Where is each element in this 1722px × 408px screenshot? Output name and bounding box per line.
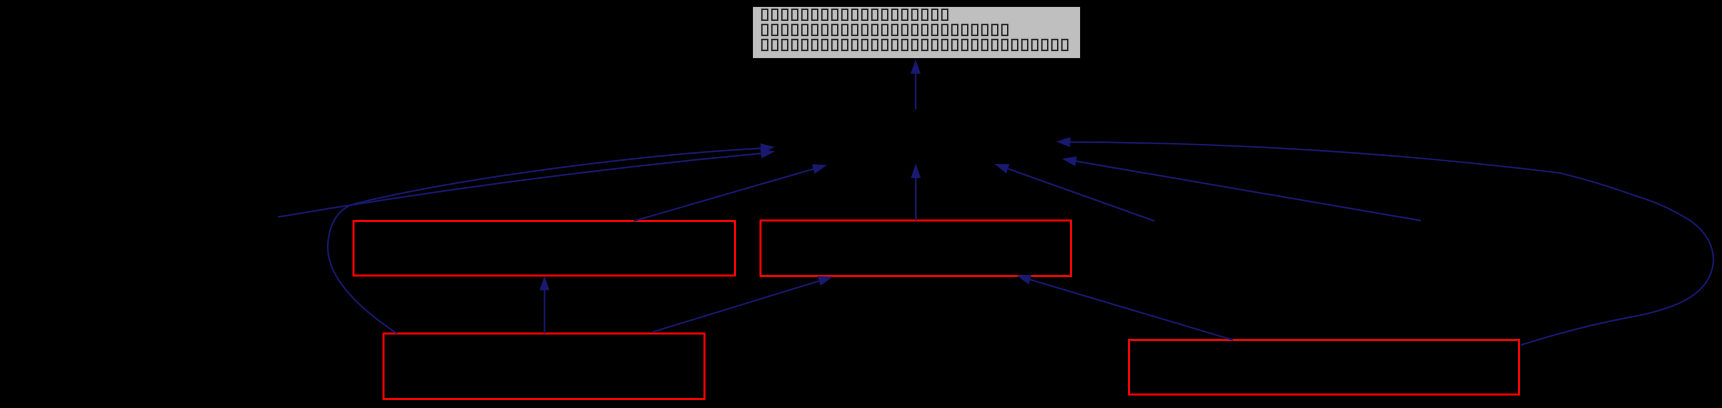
node N6: red truncated node (bottom left) (384, 334, 705, 400)
edge E9: bottom-left red node -> red centre node (653, 276, 833, 332)
node N0 label line 1 (19 missing-glyph boxes) (762, 9, 948, 20)
node N7: red truncated node (bottom right) (1129, 340, 1519, 395)
node N2: red truncated node (row 2 left) (354, 221, 736, 276)
node N0 label line 2 (25 missing-glyph boxes) (762, 25, 1008, 36)
edge E8: bottom-right red node -> hidden mid node (big right arc) (1056, 137, 1714, 345)
edge E11: bottom-right red node -> red centre node (1017, 275, 1234, 340)
node N0: current function (grey filled box) (752, 6, 1081, 59)
edge E3: hidden far-left node -> hidden mid node (278, 148, 775, 217)
edge E2: red centre node -> hidden mid node (vertical) (911, 164, 921, 221)
edge E7: hidden row2 node B -> hidden mid node (1062, 156, 1421, 220)
edge E6: hidden row2 node A -> hidden mid node (995, 164, 1155, 221)
edge E4: bottom-left red node -> hidden mid node (wrap-around curve) (328, 143, 775, 333)
node N3: red truncated node (row 2 centre) (761, 221, 1072, 277)
edge E10: bottom-left red node -> row2-left red node (vertical) (540, 276, 550, 334)
node N0 label line 3 (31 missing-glyph boxes) (762, 40, 1068, 51)
edge E1: hidden mid node -> grey node (vertical) (911, 60, 921, 110)
edge E5: row2-left red node -> hidden mid node (634, 164, 827, 221)
